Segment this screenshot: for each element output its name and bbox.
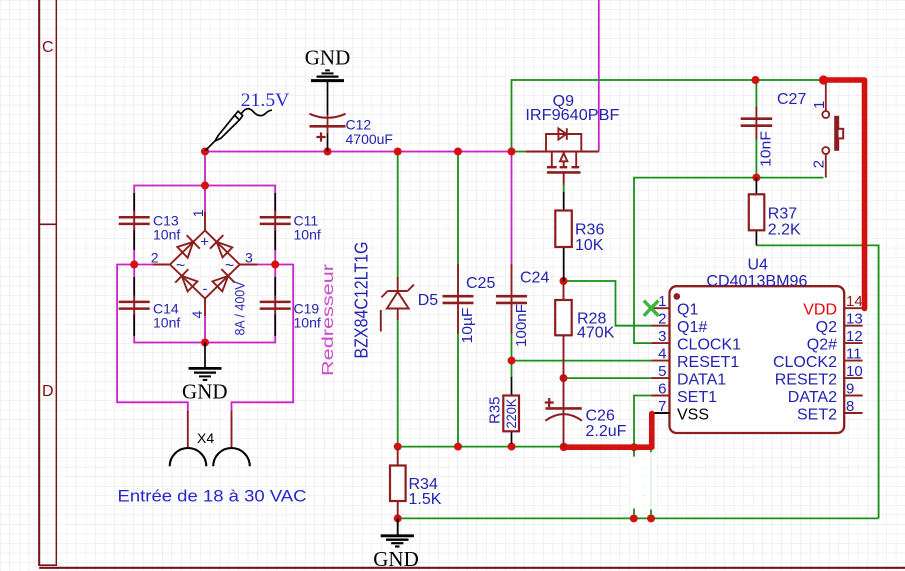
svg-text:CLOCK2: CLOCK2 bbox=[773, 354, 837, 371]
svg-text:4: 4 bbox=[658, 346, 666, 363]
svg-text:2: 2 bbox=[151, 250, 159, 266]
junction at probe node bbox=[201, 148, 209, 156]
svg-text:X4: X4 bbox=[197, 430, 214, 446]
svg-text:1.5K: 1.5K bbox=[409, 491, 442, 508]
svg-text:IRF9640PBF: IRF9640PBF bbox=[525, 107, 619, 124]
svg-text:3: 3 bbox=[658, 328, 666, 345]
wire: magenta node3 stub bbox=[257, 264, 276, 266]
svg-text:C26: C26 bbox=[586, 408, 615, 425]
MOSFET Q9 IRF9640PBF bbox=[526, 128, 599, 185]
svg-text:C27: C27 bbox=[777, 91, 806, 108]
wire: thick red VSS bus bbox=[564, 414, 652, 448]
svg-text:VSS: VSS bbox=[677, 407, 709, 424]
svg-text:10nf: 10nf bbox=[153, 314, 180, 330]
wire: MOSFET gate lead green part bbox=[563, 185, 565, 194]
wire: outer magenta loop right (node3 to X4 pin2) bbox=[232, 265, 294, 413]
bridge pin numbers and polarity marks bbox=[151, 209, 253, 318]
junction C25 bottom rail bbox=[454, 443, 462, 451]
capacitor C26 2.2uF (polarized) bbox=[545, 378, 627, 447]
wire: button pin2 to green bbox=[756, 177, 823, 179]
svg-text:Q2: Q2 bbox=[816, 319, 837, 336]
svg-text:R36: R36 bbox=[575, 222, 604, 239]
U4 pin stubs left bbox=[652, 308, 670, 413]
svg-text:470K: 470K bbox=[577, 324, 615, 341]
svg-text:Entrée de 18 à 30 VAC: Entrée de 18 à 30 VAC bbox=[118, 487, 307, 506]
junction SET1 drop at GND rail bbox=[630, 514, 638, 522]
wire: C24 lower lead to RESET1 junction bbox=[511, 332, 513, 361]
wire: RESET1 wire (pin4) bbox=[512, 360, 653, 362]
junction C27 bottom / R37 bbox=[752, 174, 760, 182]
wire: DATA1 wire (pin5) bbox=[564, 377, 653, 379]
wire: magenta node4 stub bbox=[204, 316, 206, 343]
svg-text:10nf: 10nf bbox=[294, 314, 321, 330]
diode D (2->1) bbox=[177, 242, 193, 258]
svg-text:C25: C25 bbox=[466, 275, 495, 292]
svg-text:RESET2: RESET2 bbox=[775, 372, 837, 389]
junction R28/C26/DATA1 bbox=[560, 374, 568, 382]
U4 left pin numbers 1-7 bbox=[658, 293, 666, 415]
svg-text:5: 5 bbox=[658, 363, 666, 380]
svg-text:GND: GND bbox=[305, 46, 351, 70]
node 2 lead bbox=[153, 264, 170, 266]
svg-text:4: 4 bbox=[189, 311, 205, 319]
node 3 lead bbox=[240, 264, 258, 266]
U4 left pin names bbox=[677, 302, 741, 424]
svg-text:Q1#: Q1# bbox=[677, 319, 707, 336]
svg-text:3: 3 bbox=[245, 250, 253, 266]
pin-1 marker dot bbox=[674, 293, 681, 300]
junction bridge node3 bbox=[271, 261, 279, 269]
wire: magenta C24 lead upper part bbox=[511, 152, 513, 265]
svg-text:Q2#: Q2# bbox=[807, 337, 837, 354]
U4 right pin names bbox=[773, 302, 837, 424]
wire: R35 top green bbox=[511, 361, 513, 378]
junction bridge node2 bbox=[130, 261, 138, 269]
svg-text:BZX84C12LT1G: BZX84C12LT1G bbox=[352, 242, 372, 359]
junction D5/R34 bottom rail bbox=[394, 443, 402, 451]
capacitor C13 10nf bbox=[119, 193, 181, 250]
wire: magenta node2 stub bbox=[134, 264, 153, 266]
svg-text:C24: C24 bbox=[520, 270, 549, 287]
junction button pin1 bbox=[819, 75, 828, 84]
thick red highlighted net (VDD bus / VSS bus) bbox=[564, 80, 865, 447]
connector X4 bbox=[188, 411, 232, 449]
svg-text:Q1: Q1 bbox=[677, 302, 698, 319]
junction bridge node1 bbox=[201, 182, 209, 190]
svg-text:6: 6 bbox=[658, 381, 666, 398]
wire: top green rail y=80 bbox=[512, 80, 824, 152]
node 1 lead bbox=[204, 212, 206, 231]
diode D (3->1) bbox=[217, 242, 233, 258]
svg-text:DATA1: DATA1 bbox=[677, 372, 726, 389]
zener diode D5 BZX84C12LT1G bbox=[381, 277, 414, 332]
wire: bridge inner magenta box bbox=[134, 186, 275, 343]
U4 pin stubs right bbox=[844, 308, 862, 413]
diode D (4->2) bbox=[182, 276, 198, 292]
svg-text:10nf: 10nf bbox=[294, 226, 321, 242]
junction R35 bottom rail bbox=[508, 443, 516, 451]
svg-text:9: 9 bbox=[846, 381, 854, 398]
wire: right side loop from R37 bottom bbox=[756, 245, 878, 518]
svg-text:12: 12 bbox=[846, 328, 863, 345]
svg-text:8: 8 bbox=[846, 398, 854, 415]
svg-text:13: 13 bbox=[846, 311, 863, 328]
junction C24/R35/RESET1 bbox=[508, 357, 516, 365]
svg-text:U4: U4 bbox=[748, 256, 769, 273]
svg-text:1: 1 bbox=[658, 293, 666, 310]
wire: thick red top right to pin14 bbox=[824, 80, 865, 309]
svg-text:-: - bbox=[203, 281, 208, 298]
diamond bbox=[170, 231, 240, 299]
svg-text:1: 1 bbox=[190, 209, 206, 217]
svg-text:~: ~ bbox=[176, 258, 185, 275]
svg-text:GND: GND bbox=[373, 547, 419, 571]
junction C26 at VSS bus bbox=[560, 443, 568, 451]
svg-text:CLOCK1: CLOCK1 bbox=[677, 337, 741, 354]
svg-text:1: 1 bbox=[811, 101, 828, 109]
wire: green to MOSFET source pin bbox=[512, 151, 530, 153]
wire: green to C27 top bbox=[755, 80, 757, 109]
svg-text:SET2: SET2 bbox=[797, 407, 837, 424]
resistor R35 220K bbox=[487, 377, 520, 444]
junction SET1 drop at VSS bus bbox=[630, 443, 638, 451]
ground GND (below bridge) bbox=[182, 343, 228, 404]
svg-text:C: C bbox=[42, 39, 54, 56]
svg-text:R35: R35 bbox=[487, 396, 504, 424]
capacitor C14 10nf bbox=[119, 277, 181, 336]
junction MOSFET source node bbox=[508, 148, 516, 156]
svg-text:14: 14 bbox=[846, 293, 863, 310]
svg-text:RESET1: RESET1 bbox=[677, 354, 739, 371]
no-connect X on pin 1 bbox=[644, 301, 659, 316]
svg-text:+: + bbox=[200, 234, 209, 251]
svg-text:220K: 220K bbox=[504, 399, 519, 429]
capacitor C24 100nF bbox=[496, 264, 549, 347]
svg-text:2: 2 bbox=[810, 160, 827, 168]
wire: VSS drop to bottom rail bbox=[650, 447, 652, 518]
junction bridge node4 bbox=[201, 339, 209, 347]
svg-text:21.5V: 21.5V bbox=[241, 90, 290, 111]
svg-text:SET1: SET1 bbox=[677, 389, 717, 406]
svg-text:CD4013BM96: CD4013BM96 bbox=[706, 273, 807, 290]
ground GND (bottom) bbox=[373, 518, 419, 571]
junction VSS drop at GND rail bbox=[647, 514, 655, 522]
svg-text:~: ~ bbox=[225, 258, 234, 275]
bridge rectifier (Redresseur) bbox=[153, 212, 258, 316]
probe (voltage probe at node) bbox=[206, 109, 273, 151]
svg-text:DATA2: DATA2 bbox=[788, 389, 837, 406]
junction R34 at GND rail bbox=[394, 514, 402, 522]
junction C25 net bbox=[454, 148, 462, 156]
IC U4 CD4013BM96 bbox=[670, 256, 845, 433]
resistor R37 2.2K bbox=[749, 178, 801, 246]
capacitor C12 4700uF (polarized) bbox=[310, 82, 393, 152]
svg-text:11: 11 bbox=[846, 346, 862, 363]
wire: D5 net vertical x=397.7 bbox=[397, 152, 399, 280]
wire: magenta net from bridge node1 to MOSFET source, y=151.5 bbox=[117, 0, 599, 412]
junction R36/R28 gate node bbox=[560, 277, 568, 285]
wire: magenta vertical at x=599 from top edge to MOSFET drain bbox=[598, 0, 600, 152]
wire: SET1 wire (pin6) down to bottom rail bbox=[634, 396, 652, 519]
U4 right pin numbers bbox=[846, 293, 863, 415]
svg-text:4700uF: 4700uF bbox=[346, 131, 393, 147]
svg-text:R37: R37 bbox=[768, 206, 797, 223]
svg-text:D: D bbox=[42, 383, 54, 400]
svg-text:100nF: 100nF bbox=[513, 304, 530, 347]
junction C12 bbox=[324, 148, 332, 156]
diode D (4->3) bbox=[213, 276, 229, 292]
svg-text:2: 2 bbox=[658, 311, 666, 328]
wire: C27 bottom node to CLOCK1 (pin3) bbox=[634, 178, 756, 344]
svg-text:Redresseur: Redresseur bbox=[320, 263, 337, 376]
svg-text:10: 10 bbox=[846, 363, 863, 380]
node 4 lead bbox=[204, 299, 206, 317]
junction D5 net bbox=[394, 148, 402, 156]
wire: D5 bottom green overlap bbox=[397, 446, 399, 448]
svg-text:VDD: VDD bbox=[803, 302, 837, 319]
capacitor C19 10nf bbox=[260, 277, 321, 336]
svg-text:10K: 10K bbox=[575, 237, 604, 254]
svg-text:10nF: 10nF bbox=[758, 131, 775, 167]
svg-text:10nf: 10nf bbox=[153, 226, 180, 242]
capacitor C25 10uF bbox=[443, 264, 496, 344]
resistor R34 1.5K bbox=[390, 448, 442, 518]
capacitor C11 10nf bbox=[260, 193, 321, 250]
white erase artifact over SET1/VSS drops bbox=[630, 452, 655, 515]
wire: GND rail y=518.4 bbox=[398, 517, 879, 519]
wire: R36/R28 node to Q1# (pin2) bbox=[564, 281, 653, 326]
svg-text:7: 7 bbox=[658, 398, 666, 415]
svg-text:2.2uF: 2.2uF bbox=[586, 423, 627, 440]
svg-text:2.2K: 2.2K bbox=[768, 221, 801, 238]
capacitor C27 10nF bbox=[741, 91, 807, 167]
green nets bbox=[398, 80, 879, 518]
wire: magenta vertical probe node to bridge box bbox=[204, 152, 206, 213]
svg-text:8A / 400V: 8A / 400V bbox=[232, 281, 248, 336]
svg-text:D5: D5 bbox=[418, 292, 439, 309]
resistor R28 470K bbox=[555, 281, 614, 378]
pushbutton S (pins 1,2) bbox=[822, 82, 829, 178]
wire: bottom ground rail y=446.6 bbox=[398, 446, 564, 448]
wire: C25 net vertical x=458 bbox=[457, 152, 459, 267]
svg-text:10µF: 10µF bbox=[459, 308, 476, 344]
resistor R36 10K bbox=[555, 192, 604, 281]
ground GND (top, above C12) bbox=[311, 70, 344, 80]
svg-text:GND: GND bbox=[182, 380, 228, 404]
junction C27 top bbox=[752, 76, 760, 84]
wire: outer magenta loop left (node2 to X4 pin1) bbox=[117, 265, 188, 413]
